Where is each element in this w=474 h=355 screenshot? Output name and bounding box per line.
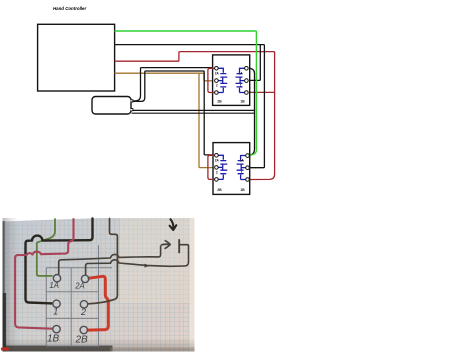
switch SW2 pin 2A (215, 154, 219, 158)
svg-text:2B: 2B (75, 334, 89, 345)
switch SW1 pin 1B (245, 91, 249, 95)
handwritten labels (47, 281, 88, 346)
switch SW1 pin 1 (245, 79, 249, 83)
switch SW1 blue contacts left (218, 68, 228, 92)
switch SW2 box (213, 143, 250, 195)
svg-text:2A: 2A (215, 158, 220, 162)
wire brown branch to lower switch pin 2 (199, 73, 215, 167)
wire black branch to upper switch pin 1 (250, 45, 260, 81)
switch SW1 red strap 2A-2B (208, 68, 215, 92)
svg-text:1A: 1A (239, 71, 244, 75)
svg-text:Hand Controller: Hand Controller (53, 6, 86, 11)
switch SW1 pin 1A (245, 67, 249, 71)
drawn tick mark (178, 240, 180, 253)
pencil table lines (46, 245, 112, 347)
svg-text:1A: 1A (49, 281, 59, 290)
switch SW2 blue contacts right (237, 156, 247, 180)
svg-text:2: 2 (216, 171, 218, 175)
wire black: controller to switch commons (115, 45, 265, 168)
pencil pin circle 2A (81, 275, 88, 282)
svg-text:2B: 2B (217, 188, 222, 192)
svg-text:2B: 2B (217, 100, 222, 104)
svg-text:2: 2 (216, 84, 218, 88)
switch SW1 labels 2B 1B (217, 100, 245, 104)
switch SW1 blue contacts right (236, 68, 246, 92)
photo left dark edge (3, 221, 5, 352)
battery BT1 (92, 97, 131, 115)
drawn black wire to pin 1 (26, 219, 93, 304)
switch SW2 pin 2 (215, 166, 219, 170)
switch SW2 pin 2B (215, 178, 219, 182)
switch SW2 pin labels (215, 158, 245, 174)
red mark bottom left corner (3, 347, 8, 350)
svg-text:2A: 2A (74, 281, 85, 290)
wire dark red: controller to pins 1B (115, 52, 275, 180)
battery pin - (131, 109, 133, 111)
svg-text:1: 1 (240, 84, 242, 88)
svg-text:2: 2 (80, 307, 86, 317)
pencil pin circle 1 (53, 300, 60, 307)
hand controller box U1 (38, 24, 115, 91)
switch SW1 pin 2B (215, 91, 219, 95)
switch SW2 pin 1B (246, 178, 250, 182)
pencil pin circle 1A (53, 275, 60, 282)
switch SW2 blue contacts left (218, 155, 228, 179)
svg-text:1: 1 (53, 307, 58, 317)
pencil pin circle 2B (80, 326, 87, 333)
drawn arrow right (162, 241, 171, 249)
switch SW1 pin 2 (215, 79, 219, 83)
switch SW1 box (213, 55, 250, 106)
switch SW2 red strap 2A-2B (208, 155, 215, 179)
photo bottom dark edge (3, 346, 113, 352)
drawn arrowhead on lower wire (145, 264, 150, 268)
wire black battery- double run to pins 1A (132, 109, 255, 111)
wire black battery+ to upper switch pin 2A (132, 68, 215, 101)
pencil pin circle 1B (53, 325, 60, 332)
svg-text:1B: 1B (240, 100, 245, 104)
svg-text:1A: 1A (240, 158, 245, 162)
wire green: controller to lower switch pin 1A (115, 31, 257, 155)
wire black battery+ branch to lower switch pin 2A (132, 71, 215, 155)
switch SW2 pin 1A (246, 154, 250, 158)
svg-text:1: 1 (241, 171, 243, 175)
svg-text:1B: 1B (240, 188, 245, 192)
drawn green wire (37, 219, 55, 276)
switch SW1 pin labels (215, 71, 244, 87)
pencil pin circle 2 (80, 301, 87, 308)
switch SW1 pin 2A (215, 67, 219, 71)
drawn crimson wire to pin 1B (15, 219, 73, 329)
wire black vertical joining both pins 1A (250, 68, 255, 155)
drawn dark brown wire to pin 2 (88, 219, 117, 304)
svg-text:1B: 1B (47, 334, 60, 345)
wire dark red tap to upper switch pin 1B (250, 91, 275, 93)
photo paper (3, 218, 195, 352)
photo of hand-drawn schematic (3, 218, 195, 352)
svg-text:2A: 2A (215, 71, 220, 75)
drawn bold down arrow (170, 219, 177, 230)
drawn red strap 2A-2B (88, 276, 108, 330)
drawn dark pen lower wire 2A to plug (86, 245, 189, 275)
drawn dark pen upper wire 1A to arrow (59, 246, 161, 274)
battery pin + (131, 100, 133, 102)
wire brown: controller to switch pins 2 (115, 73, 215, 81)
photo shading (120, 218, 195, 303)
switch SW2 labels 2B 1B (217, 188, 245, 192)
switch SW2 pin 1 (246, 166, 250, 170)
